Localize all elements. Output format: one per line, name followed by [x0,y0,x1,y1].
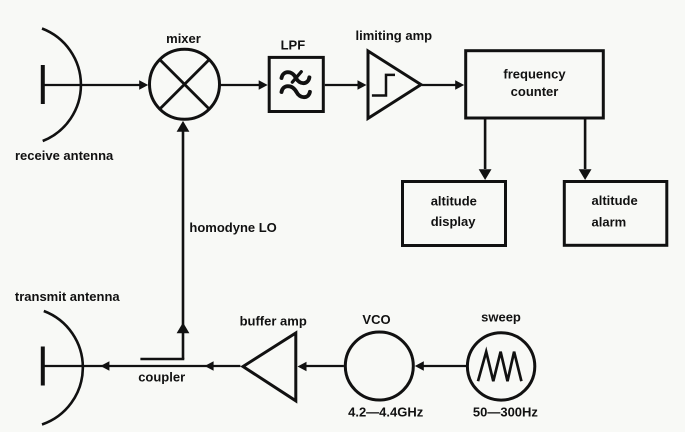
svg-text:VCO: VCO [362,312,390,327]
svg-text:LPF: LPF [281,37,306,52]
svg-text:sweep: sweep [481,310,521,325]
svg-text:alarm: alarm [592,215,627,230]
svg-text:4.2—4.4GHz: 4.2—4.4GHz [348,404,424,419]
svg-text:coupler: coupler [138,369,185,384]
svg-text:50—300Hz: 50—300Hz [473,404,539,419]
svg-text:frequency: frequency [503,66,566,81]
svg-text:buffer amp: buffer amp [240,313,307,328]
svg-text:altitude: altitude [592,193,638,208]
svg-text:display: display [431,214,477,229]
svg-text:counter: counter [511,84,559,99]
svg-text:transmit antenna: transmit antenna [15,289,121,304]
svg-text:mixer: mixer [166,31,201,46]
svg-text:limiting amp: limiting amp [356,28,433,43]
svg-text:receive antenna: receive antenna [15,148,114,163]
svg-text:altitude: altitude [431,193,477,208]
svg-text:homodyne LO: homodyne LO [189,220,276,235]
